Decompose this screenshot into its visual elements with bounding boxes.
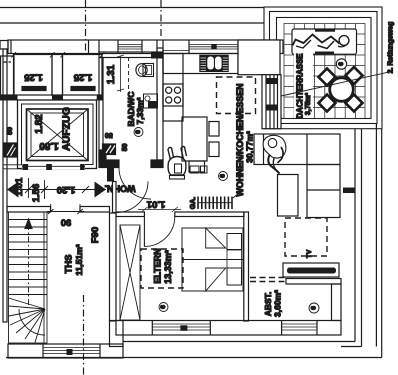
kitchen strip vertical [163, 54, 183, 122]
svg-text:1.20: 1.20 [57, 184, 76, 195]
bath window dimension [117, 55, 124, 92]
terrasse label background [294, 53, 313, 118]
dining dashed zone [217, 77, 256, 114]
sofa vertical section [307, 165, 340, 218]
south window wall band [116, 321, 341, 336]
outer eaves right outer [381, 129, 383, 358]
top wall band [8, 40, 283, 54]
lounger with person [292, 29, 357, 54]
TV sideboard [283, 263, 339, 277]
terrasse tile grid [284, 24, 365, 119]
label ELTERN [153, 248, 163, 283]
shaft bottom wall west extension [3, 165, 22, 169]
shaft top wall black left [0, 95, 18, 101]
label 50 horizontal [105, 131, 113, 138]
svg-text:THS: THS [64, 255, 75, 274]
living east wall [355, 129, 362, 347]
sofa chaise horizontal [254, 134, 340, 165]
elevator door jamb mid [46, 164, 52, 170]
label 2. Rettungsweg [388, 22, 395, 74]
garderobe hatch [198, 193, 240, 209]
ABST circled 6 [309, 303, 319, 313]
shaft top wall black mid [52, 96, 63, 101]
svg-text:7,33m²: 7,33m² [135, 97, 145, 124]
terrasse door jamb top [266, 78, 278, 84]
dining chair right bottom [209, 142, 219, 157]
bedroom door arc [144, 217, 174, 247]
label 1.56 corridor [31, 184, 42, 203]
elevator door threshold line [22, 165, 85, 167]
kitchen counter top run [163, 54, 238, 74]
elevator shaft walls [18, 100, 97, 169]
bedroom door leaf [143, 217, 145, 247]
label BAD/WC [126, 92, 136, 127]
axis dash-dot mid [160, 0, 162, 36]
window niche 1.25 right [63, 55, 103, 96]
svg-text:50: 50 [105, 131, 113, 138]
bedroom top wall left [116, 212, 144, 217]
svg-text:1.01: 1.01 [146, 199, 165, 210]
label 1.25 right [73, 72, 92, 83]
svg-text:AUFZUG: AUFZUG [61, 107, 73, 151]
label GA [190, 197, 197, 210]
elevator cab with cross [27, 109, 89, 161]
svg-text:1.31: 1.31 [106, 64, 117, 84]
bath door arc [119, 168, 151, 200]
terrasse parapet mid rect [270, 12, 378, 124]
bath duct black hatch [103, 144, 116, 155]
svg-text:1.80: 1.80 [39, 140, 59, 151]
THS stair arrow [24, 218, 33, 309]
THS winder treads [9, 298, 46, 343]
terrasse chair SW [319, 95, 336, 112]
label 50 shaft left [7, 127, 14, 135]
svg-text:6: 6 [160, 305, 167, 309]
axis dash-dot bottom [83, 295, 85, 375]
window niche pier [52, 55, 63, 96]
label F90 [90, 227, 101, 243]
label AUFZUG [61, 107, 73, 151]
living door leaf [113, 182, 117, 213]
svg-text:1.01: 1.01 [14, 177, 25, 196]
svg-text:30,77m²: 30,77m² [245, 131, 255, 163]
dining chair bottom [189, 161, 205, 172]
THS bottom wall [8, 344, 123, 358]
svg-text:6: 6 [220, 174, 227, 178]
svg-text:1.56: 1.56 [31, 184, 42, 203]
label 90 door [61, 217, 72, 228]
south window mullion black [180, 325, 187, 331]
shaft niche hatch left [4, 143, 17, 157]
svg-text:ELTERN: ELTERN [153, 248, 163, 283]
svg-text:50: 50 [7, 127, 14, 135]
carpet dashed living [285, 218, 327, 256]
ABST top wall [286, 279, 341, 285]
terrasse door jamb bottom [266, 105, 278, 111]
svg-text:WOHN.: WOHN. [105, 183, 136, 193]
window dimension ticks [12, 52, 105, 58]
hall bench left [190, 166, 199, 173]
svg-text:6: 6 [135, 130, 142, 134]
terrasse circled 6 [336, 59, 346, 69]
corner box top-left [0, 41, 8, 50]
label 1.20 corridor [57, 184, 76, 195]
hall-living wall black [107, 168, 114, 182]
label THS [64, 255, 75, 274]
bedroom east wall [244, 212, 249, 321]
dining chair right top [209, 122, 219, 137]
elevator shaft door gap [22, 162, 85, 169]
rescue route pointer line [272, 72, 389, 98]
svg-text:1.25: 1.25 [73, 72, 92, 83]
bedroom top wall right [175, 212, 244, 217]
sofa ottoman [278, 175, 299, 217]
double bed [182, 228, 243, 291]
outline bottom outer [6, 357, 382, 359]
outer eaves right inner [375, 124, 377, 347]
svg-text:F90: F90 [90, 227, 101, 243]
label 1.01 corridor [14, 177, 25, 196]
terrasse parapet outer rect [264, 7, 382, 129]
svg-text:TV: TV [306, 249, 313, 258]
label 13,33m2 [163, 250, 173, 284]
south step wall [110, 321, 124, 347]
hall bench right [201, 166, 208, 173]
label 1.80 [39, 140, 59, 151]
label 30,77m2 [245, 131, 255, 163]
THS stair flight [9, 212, 48, 343]
terrasse parapet inner rect [277, 18, 372, 119]
label 1.01 living door [146, 199, 165, 210]
terrasse window band west [262, 75, 281, 129]
corridor dimension line [7, 178, 106, 199]
corridor dim arrow right [95, 182, 107, 198]
svg-text:WOHNEN/KOCHEN/ESSEN: WOHNEN/KOCHEN/ESSEN [235, 84, 245, 197]
svg-text:1.25: 1.25 [24, 72, 43, 83]
bath east wall head black [151, 52, 163, 59]
outline step 2 [341, 346, 362, 348]
svg-text:11,51m²: 11,51m² [74, 244, 84, 275]
svg-text:50: 50 [122, 143, 129, 151]
label 7,33m2 with circle 6 [134, 97, 145, 136]
label 1.25 left [24, 72, 43, 83]
svg-text:GA.: GA. [190, 197, 197, 210]
person at sofa [263, 135, 286, 173]
label TV [306, 249, 313, 258]
window niche 1.25 left [14, 55, 53, 96]
bath hidden dashed line [128, 57, 130, 100]
label 3,60m2 [273, 290, 283, 317]
elevator door jamb left [22, 164, 28, 170]
kitchen block wall corner [238, 40, 280, 75]
kitchen sink black [199, 55, 228, 72]
corridor dim arrow left [7, 182, 19, 198]
top wall window mullion [211, 44, 216, 49]
svg-text:6: 6 [338, 62, 345, 66]
living circled 6 [219, 172, 228, 181]
left outer wall [3, 49, 7, 322]
living door arc [116, 182, 148, 213]
eaves line lower [0, 22, 264, 24]
svg-text:90: 90 [61, 217, 72, 228]
THS top wall [7, 207, 110, 213]
svg-text:6: 6 [311, 306, 318, 310]
label WOHN. [105, 183, 136, 193]
ABST east wall [332, 284, 342, 321]
label WOHNEN/KOCHEN/ESSEN [235, 84, 245, 197]
label 3,75m2 [305, 92, 312, 115]
bathroom walls [99, 48, 163, 168]
svg-text:3,60m²: 3,60m² [273, 290, 283, 317]
terrasse chair SE [346, 95, 363, 112]
elevator door jamb right [80, 164, 85, 170]
label 50 vertical [122, 143, 129, 151]
svg-text:2. Rettungsweg: 2. Rettungsweg [388, 22, 395, 74]
svg-text:ABST.: ABST. [263, 292, 273, 317]
svg-text:13,33m²: 13,33m² [163, 250, 173, 284]
THS window mullion black [67, 349, 73, 355]
svg-text:3,75m²: 3,75m² [305, 92, 312, 115]
washbasin [144, 94, 158, 108]
terrasse chair NW [319, 69, 336, 86]
left niche strip [1, 56, 15, 95]
label DACHTERRASSE [296, 54, 305, 119]
label 1.31 [106, 64, 117, 84]
svg-text:1.82: 1.82 [34, 114, 45, 134]
hall-bedroom wall [110, 213, 117, 321]
terrasse table [330, 78, 354, 102]
label 1.82 [34, 114, 45, 134]
toilet [136, 64, 154, 77]
eaves line upper [0, 7, 264, 9]
terrasse chair NE [346, 67, 363, 84]
bedroom circled 6 [159, 303, 168, 312]
label ABST. [263, 292, 273, 317]
dining table [182, 117, 207, 161]
wall duct black tick [343, 188, 355, 194]
living door dimension 1.01 [138, 207, 181, 212]
person standing at kitchen [168, 147, 187, 180]
axis dash-dot left [85, 0, 87, 52]
svg-text:DACHTERRASSE: DACHTERRASSE [296, 54, 305, 119]
wardrobe with cross [120, 225, 140, 320]
ABST door dashed pass [250, 278, 286, 282]
label 11,51m2 [74, 244, 84, 275]
stove with burners [163, 84, 183, 106]
bedroom dashed zone [141, 249, 183, 288]
THS door dimension [47, 204, 84, 214]
shaft top wall black right [97, 96, 103, 101]
outline step 1 [123, 341, 355, 343]
